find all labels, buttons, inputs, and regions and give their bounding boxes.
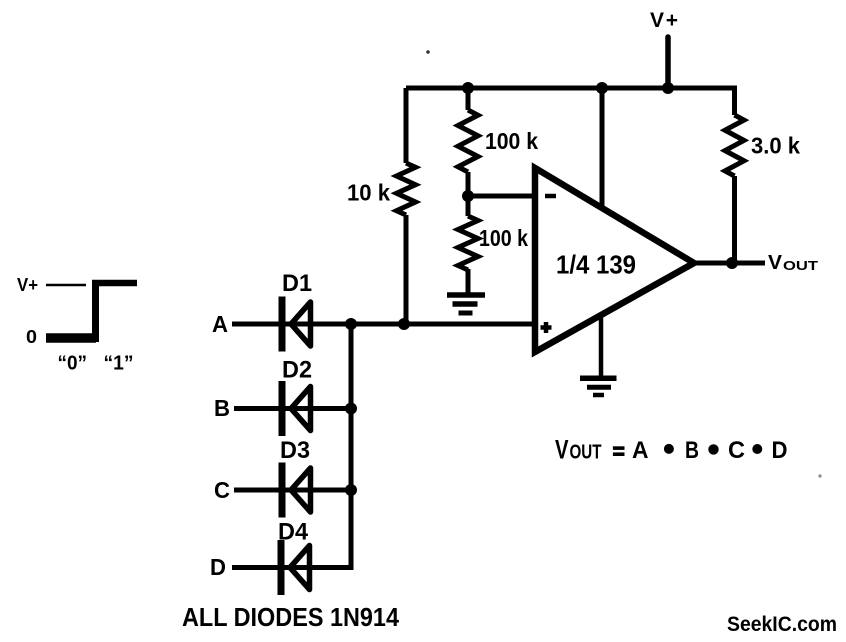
wire V+ supply stub — [665, 37, 671, 88]
wire B row — [234, 406, 351, 411]
waveform step high segment — [92, 280, 137, 287]
svg-text:100 k: 100 k — [479, 225, 529, 251]
diode D1 — [282, 297, 311, 352]
svg-text:V: V — [555, 435, 569, 465]
resistor R 100k lower — [458, 196, 478, 293]
label VOUT — [768, 252, 818, 274]
wire top rail — [406, 86, 737, 91]
junction dot rail-mid (op-amp power) — [596, 82, 608, 94]
op-amp plus sign — [541, 322, 552, 333]
wire inverting input — [468, 194, 533, 199]
svg-text:C: C — [214, 477, 230, 503]
ground (op-amp) — [580, 378, 617, 395]
junction dot output — [726, 257, 738, 269]
wire output — [690, 261, 765, 266]
svg-text:D3: D3 — [280, 437, 310, 464]
op-amp U 1/4 139 — [535, 168, 694, 352]
ground (divider) — [447, 295, 485, 313]
resistor R 3.0k — [725, 86, 744, 263]
diode D4 — [281, 540, 310, 595]
op-amp minus sign — [545, 194, 556, 199]
svg-text:OUT: OUT — [783, 259, 818, 273]
svg-text:SeekIC.com: SeekIC.com — [727, 613, 837, 636]
resistor R 100k upper — [458, 88, 478, 196]
svg-text:“0”: “0” — [58, 352, 88, 375]
svg-text:C: C — [728, 437, 745, 464]
scan speck top — [426, 50, 430, 54]
junction dot rail-left (100k) — [462, 82, 474, 94]
diode D3 — [282, 463, 311, 518]
svg-text:D1: D1 — [282, 270, 312, 297]
waveform step rising edge — [92, 280, 99, 342]
waveform step low segment — [46, 333, 96, 343]
svg-text:V: V — [768, 252, 783, 274]
equation VOUT = A.B.C.D — [555, 435, 788, 465]
junction dot 10k to input — [398, 318, 410, 330]
svg-text:V+: V+ — [17, 275, 38, 295]
svg-text:D: D — [210, 554, 226, 580]
wire op-amp ground stem — [599, 310, 604, 378]
svg-text:V+: V+ — [650, 9, 678, 32]
junction dot bus B — [345, 403, 357, 415]
svg-text:3.0 k: 3.0 k — [751, 133, 801, 159]
svg-text:100 k: 100 k — [485, 128, 539, 154]
svg-text:1/4 139: 1/4 139 — [556, 250, 636, 280]
junction dot bus A — [345, 318, 357, 330]
wire D row — [232, 565, 354, 570]
svg-text:B: B — [685, 437, 699, 464]
diode D2 — [282, 381, 311, 436]
resistor R 10k — [397, 88, 416, 324]
svg-text:0: 0 — [26, 327, 37, 347]
svg-text:A: A — [212, 311, 228, 337]
junction dot bus C — [345, 484, 357, 496]
wire noninverting input (A row) — [232, 322, 533, 327]
svg-text:“1”: “1” — [104, 352, 134, 375]
svg-text:ALL DIODES 1N914: ALL DIODES 1N914 — [182, 602, 399, 632]
junction dot divider node — [462, 190, 474, 202]
svg-text:D: D — [772, 437, 788, 464]
svg-text:D2: D2 — [282, 357, 312, 384]
svg-text:B: B — [214, 395, 230, 421]
svg-text:A: A — [632, 437, 649, 464]
svg-text:OUT: OUT — [570, 441, 602, 464]
wire C row — [234, 488, 351, 493]
wire op-amp power from rail — [600, 88, 605, 210]
scan speck right — [818, 474, 821, 477]
junction dot rail V+ — [662, 82, 674, 94]
wire diode bus — [349, 324, 354, 568]
svg-text:10 k: 10 k — [347, 180, 391, 206]
wire V+ level reference line — [46, 284, 86, 287]
